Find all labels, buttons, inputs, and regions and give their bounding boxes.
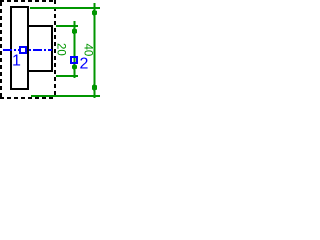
svg-text:20: 20 [55, 43, 67, 56]
svg-text:40: 40 [81, 44, 93, 57]
svg-text:2: 2 [80, 56, 89, 73]
svg-text:1: 1 [12, 53, 21, 70]
